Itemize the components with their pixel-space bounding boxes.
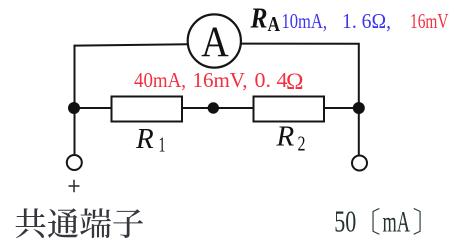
label 50mA open bracket	[372, 208, 379, 235]
svg-text:R: R	[135, 123, 154, 155]
ammeter U1 circle	[188, 14, 241, 67]
svg-text:2: 2	[298, 132, 306, 156]
wire top-left segment	[75, 46, 76, 154]
wire R1 to R2	[182, 107, 254, 109]
wire middle left node to R1	[74, 107, 112, 109]
wire top-right segment	[241, 44, 359, 155]
node middle junction	[208, 102, 219, 113]
svg-text:A: A	[268, 12, 281, 36]
label common-terminal char shi (子)	[113, 209, 143, 238]
label 50mA close bracket	[413, 208, 420, 235]
svg-text:Ω: Ω	[286, 69, 304, 95]
label common-terminal char tsu (通)	[48, 208, 78, 238]
svg-text:A: A	[201, 18, 229, 66]
svg-text:16mV: 16mV	[410, 9, 449, 33]
resistor R2 box	[254, 97, 325, 122]
svg-text:10mA,: 10mA,	[282, 9, 328, 33]
svg-text:1: 1	[159, 132, 166, 156]
wire R2 to right node	[324, 107, 359, 109]
node left junction	[68, 102, 80, 114]
svg-text:R: R	[250, 3, 268, 35]
terminal right (50mA)	[352, 156, 367, 171]
polarity plus sign	[69, 180, 80, 192]
svg-text:mA: mA	[383, 206, 411, 239]
label common-terminal char tan (端)	[80, 208, 111, 238]
svg-text:40mA,: 40mA,	[134, 68, 186, 92]
node right junction	[353, 102, 365, 114]
wire top-left horizontal	[75, 44, 189, 45]
terminal left (common)	[67, 155, 82, 170]
svg-text:0. 4: 0. 4	[255, 68, 289, 92]
svg-text:50: 50	[334, 205, 356, 239]
svg-text:R: R	[276, 121, 295, 153]
label common-terminal char kyo (共)	[16, 208, 46, 238]
svg-text:16mV,: 16mV,	[193, 68, 248, 92]
resistor R1 box	[112, 97, 183, 122]
svg-text:1. 6Ω,: 1. 6Ω,	[342, 9, 391, 33]
